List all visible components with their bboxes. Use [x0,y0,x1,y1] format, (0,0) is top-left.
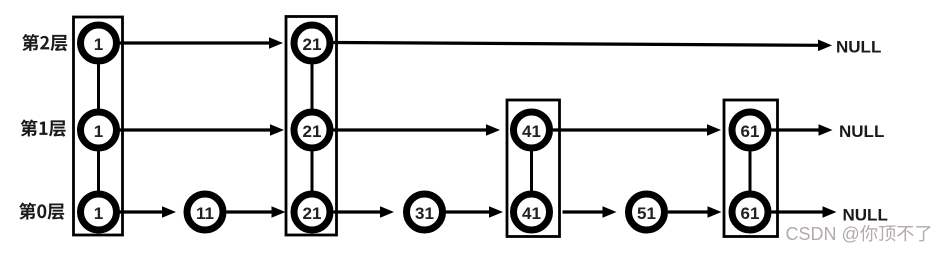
svg-text:41: 41 [522,204,541,223]
svg-text:NULL: NULL [839,122,884,141]
svg-text:CSDN @: CSDN @ [786,224,860,244]
svg-text:61: 61 [741,122,760,141]
svg-text:1: 1 [94,204,103,223]
svg-text:51: 51 [637,204,656,223]
svg-text:21: 21 [303,122,322,141]
svg-text:21: 21 [303,35,322,54]
svg-text:1: 1 [94,122,103,141]
svg-text:NULL: NULL [836,38,881,57]
svg-text:NULL: NULL [843,206,888,225]
svg-text:41: 41 [522,122,541,141]
svg-text:61: 61 [741,204,760,223]
svg-text:11: 11 [196,204,214,223]
svg-text:21: 21 [303,204,322,223]
svg-text:31: 31 [415,204,434,223]
svg-text:1: 1 [94,35,103,54]
